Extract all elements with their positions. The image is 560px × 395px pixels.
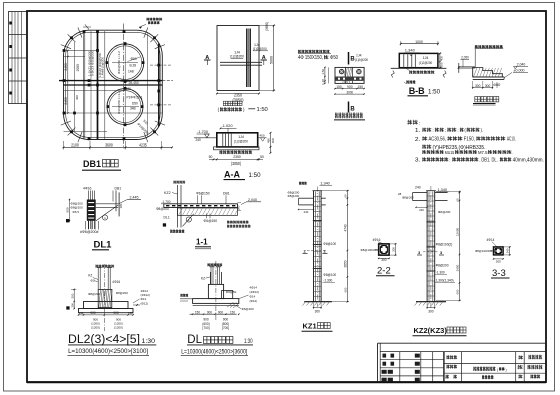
DL dowel bars	[210, 267, 212, 285]
svg-text:450: 450	[260, 134, 265, 138]
svg-text:DL1: DL1	[164, 216, 170, 220]
B-B right dimension	[439, 53, 441, 67]
DB1 corner fan hatch bottom-left	[61, 121, 82, 142]
svg-text:100: 100	[237, 205, 241, 210]
svg-text::: :	[419, 121, 420, 127]
svg-text:240: 240	[419, 208, 424, 212]
svg-text:DB1: DB1	[83, 159, 101, 169]
svg-text:-1.700: -1.700	[162, 200, 171, 204]
svg-text:400: 400	[439, 56, 443, 61]
svg-text:(600): (600)	[222, 322, 229, 326]
svg-text:2-2: 2-2	[377, 266, 391, 277]
B-B beam body	[399, 53, 438, 67]
svg-text:MU15: MU15	[445, 150, 455, 155]
svg-text:900: 900	[347, 85, 353, 89]
svg-text:1.: 1.	[415, 128, 421, 134]
DL2 footing step	[84, 302, 129, 309]
svg-text:F150,: F150,	[464, 137, 475, 143]
svg-text:50: 50	[260, 155, 264, 159]
svg-text:1,340: 1,340	[438, 188, 448, 192]
svg-text:4Φ16: 4Φ16	[112, 280, 120, 284]
tie beam dark band	[335, 77, 363, 81]
3-3 section square	[494, 247, 504, 255]
svg-text:M7.5: M7.5	[478, 150, 488, 155]
KZ2 stirrup ticks	[427, 196, 435, 296]
svg-text:2B.450: 2B.450	[129, 81, 139, 85]
B-B backfill note blob	[409, 70, 434, 74]
B-B ground line	[391, 67, 447, 69]
svg-text:3.: 3.	[415, 158, 421, 164]
DL2 left dimension	[73, 289, 75, 308]
DB1 top-left extension ticks	[85, 25, 89, 30]
1-1 dampproof square and blob	[163, 223, 166, 226]
slab plan bottom dimension	[217, 93, 259, 95]
svg-text:(1)2@200: (1)2@200	[234, 139, 248, 143]
svg-text:180: 180	[119, 203, 123, 208]
A-A inner rebar verticals	[222, 134, 224, 147]
svg-text:2,040: 2,040	[248, 198, 257, 202]
DL top rebar text	[208, 263, 223, 266]
section marker B bottom	[348, 102, 350, 113]
slab plan vertical beam	[246, 29, 248, 88]
svg-text:(3050): (3050)	[231, 161, 241, 166]
3-3 bottom dimension	[494, 258, 504, 260]
svg-text:KZ: KZ	[88, 273, 92, 277]
svg-text:(1)2@200: (1)2@200	[230, 55, 244, 59]
svg-text:34B: 34B	[130, 106, 136, 110]
1-1 diagonal brace	[183, 214, 194, 227]
svg-text:1,300(1,340): 1,300(1,340)	[436, 279, 454, 283]
2-2 section square	[379, 244, 389, 255]
svg-text:3000: 3000	[347, 91, 354, 95]
KZ1 column centerline	[316, 187, 318, 308]
svg-text:50: 50	[209, 155, 213, 159]
DB1 left dimension chain	[67, 50, 69, 114]
DL footing pedestal	[208, 284, 223, 298]
tie beam plan rectangle	[335, 67, 364, 83]
DL1 vertical rebars	[87, 191, 89, 230]
DL right step	[222, 291, 233, 299]
DB1 center axis line	[123, 24, 125, 149]
svg-text:Φ8@200: Φ8@200	[402, 195, 414, 199]
svg-text:300: 300	[485, 84, 491, 88]
svg-text:240: 240	[415, 186, 421, 190]
svg-text:300: 300	[70, 303, 74, 308]
tie beam bottom dimension	[335, 88, 364, 90]
tie beam plan center column hatch	[343, 67, 352, 83]
svg-text:300: 300	[496, 259, 501, 263]
svg-text:DL2(3)<4>[5]: DL2(3)<4>[5]	[68, 334, 140, 346]
notes heading	[408, 120, 418, 125]
svg-text:AC30,56,: AC30,56,	[429, 137, 447, 143]
svg-text:(Φ12): (Φ12)	[250, 299, 258, 303]
svg-text:240: 240	[304, 210, 309, 214]
svg-text:5000: 5000	[270, 56, 274, 64]
svg-text:500: 500	[70, 293, 74, 298]
svg-text:KZ1: KZ1	[303, 322, 317, 331]
svg-text:2,445: 2,445	[130, 195, 139, 199]
svg-text:2450: 2450	[64, 97, 68, 105]
svg-text:2350: 2350	[234, 92, 243, 97]
DB1 intersection node dots	[63, 30, 161, 140]
steps profile with hatch	[473, 68, 503, 77]
DL1 slab lines to wall	[96, 203, 119, 205]
DL1 column dark section	[87, 200, 96, 221]
svg-text:Φ8@200: Φ8@200	[156, 207, 169, 211]
DL1 base black square	[66, 219, 69, 222]
svg-text:600: 600	[271, 138, 275, 143]
svg-text:2.: 2.	[415, 137, 421, 143]
svg-text:KZ2(KZ3): KZ2(KZ3)	[414, 326, 448, 335]
note item 2 line 3	[422, 150, 443, 154]
svg-text:1.50: 1.50	[321, 69, 325, 75]
svg-text:(3850): (3850)	[265, 22, 269, 31]
svg-text:(600): (600)	[202, 322, 209, 326]
svg-text:500: 500	[66, 207, 70, 212]
svg-text:DB1: DB1	[223, 192, 230, 196]
KZ2 base dimension	[427, 307, 435, 309]
svg-text:4Φ14: 4Φ14	[250, 286, 258, 290]
svg-text:600: 600	[439, 62, 443, 67]
1-1 top leader blob	[174, 181, 186, 184]
DL2 footing slab	[79, 309, 134, 313]
KZ1 left flange dim	[299, 209, 314, 211]
A-A section slab body	[217, 133, 258, 147]
svg-text:600: 600	[343, 287, 347, 292]
svg-text:Φ6@150: Φ6@150	[196, 192, 210, 196]
svg-text:-1.700: -1.700	[197, 130, 208, 134]
svg-text:1:30: 1:30	[142, 339, 156, 345]
DL2 column with hatch	[98, 289, 112, 307]
svg-text:2650: 2650	[343, 260, 347, 267]
3-3 right dimension	[509, 247, 511, 255]
KZ1 top texts	[299, 182, 307, 185]
svg-text:150: 150	[195, 310, 200, 314]
svg-text:Φ8@100: Φ8@100	[323, 242, 336, 246]
svg-text:300: 300	[428, 310, 434, 314]
DB1 bottom dimension line	[63, 141, 173, 150]
DL1 right wall line	[115, 190, 117, 211]
tie beam plan title	[335, 113, 363, 119]
A-A bottom bedding slab	[214, 147, 260, 150]
svg-text:Φ8@200: Φ8@200	[288, 194, 300, 198]
title block right section rows	[444, 363, 546, 365]
section marker B top	[348, 52, 350, 65]
svg-text:(1)2@200: (1)2@200	[419, 61, 433, 65]
svg-text:150: 150	[358, 85, 364, 89]
inner frame bottom emphasis	[27, 381, 546, 383]
A-A bottom dimension	[209, 158, 263, 160]
steps bottom slab	[473, 76, 504, 78]
KZ1 base line	[304, 301, 332, 303]
svg-text:1J4: 1J4	[356, 54, 362, 58]
svg-text:3600: 3600	[105, 142, 113, 147]
svg-text:4740: 4740	[343, 224, 347, 231]
signature strip table	[9, 12, 28, 104]
svg-text:Φ8@100: Φ8@100	[323, 273, 336, 277]
svg-text:4Φ16: 4Φ16	[83, 186, 91, 190]
svg-text:(1)2@200: (1)2@200	[253, 47, 267, 51]
svg-text:Φ8@200: Φ8@200	[436, 264, 449, 268]
svg-text:.: .	[479, 158, 480, 163]
DL center axis	[215, 261, 217, 320]
A-A bedding text blob (C15)	[220, 150, 253, 154]
svg-text:Φ10@200 L=1.2: Φ10@200 L=1.2	[117, 91, 121, 114]
svg-text:12600: 12600	[456, 227, 460, 236]
svg-text:2050: 2050	[76, 64, 80, 72]
KZ1 top beam flange	[299, 197, 314, 199]
DL1 bottom hatch rebars	[85, 221, 87, 230]
svg-text:L=10300(4600)<2500>[3100]: L=10300(4600)<2500>[3100]	[68, 349, 148, 355]
2-2 bottom dimension	[379, 257, 389, 259]
svg-text:240: 240	[506, 248, 510, 253]
DB1 vertical grid lines	[75, 31, 159, 139]
svg-text::: :	[457, 128, 458, 133]
KZ2 column centerline	[430, 186, 432, 309]
svg-text:5-5KZ3 Φ10@200: 5-5KZ3 Φ10@200	[91, 51, 95, 76]
svg-text:1,340: 1,340	[320, 182, 330, 186]
tie beam left dimension	[324, 67, 326, 83]
svg-text:Φ6.5: Φ6.5	[73, 210, 80, 214]
steps top note text	[475, 45, 503, 48]
title block left table columns	[399, 352, 401, 382]
KZ1 base dimension	[314, 307, 322, 309]
svg-text:1:50: 1:50	[428, 89, 441, 96]
steps upper floor line	[458, 66, 475, 68]
svg-text:450: 450	[267, 138, 271, 143]
DL1 diagonal tie	[96, 205, 118, 221]
svg-text:900: 900	[223, 317, 229, 321]
svg-text:[1200]: [1200]	[91, 326, 100, 330]
KZ1 right dimension line	[346, 191, 348, 302]
DB1 lower tank circle (double)	[107, 89, 143, 125]
svg-text:±0.000: ±0.000	[514, 69, 525, 73]
svg-text:1,340: 1,340	[405, 48, 416, 53]
svg-text:[700]: [700]	[222, 326, 229, 330]
svg-text:2650: 2650	[456, 264, 460, 271]
tie beam note text line 1	[298, 50, 330, 53]
svg-text:DB1: DB1	[115, 186, 122, 190]
1-1 slab band	[164, 204, 238, 208]
svg-text:Φ8@100(2): Φ8@100(2)	[436, 243, 453, 247]
svg-text:4Φ14: 4Φ14	[487, 238, 495, 242]
svg-text:#Φ6@200#: #Φ6@200#	[80, 230, 99, 234]
svg-text:1.10: 1.10	[321, 79, 325, 85]
KZ1 column verticals	[313, 191, 315, 302]
A-A right dimension	[270, 133, 272, 153]
svg-text:B: B	[350, 106, 355, 112]
svg-text:150: 150	[79, 311, 84, 315]
svg-text:-1.300: -1.300	[323, 278, 332, 282]
DL2 slab right level flag	[133, 304, 140, 306]
svg-text:-1.020: -1.020	[222, 124, 233, 128]
svg-text::: :	[432, 128, 433, 133]
KZ2 right dimension line	[459, 192, 461, 301]
svg-text:60: 60	[456, 198, 460, 202]
svg-text:): )	[506, 368, 507, 372]
DB1 corner fan hatch top-left	[61, 28, 82, 49]
svg-text:300: 300	[391, 247, 395, 252]
svg-text:900: 900	[113, 311, 119, 315]
steps note leader line	[474, 49, 476, 68]
svg-text:P1ΦΦ.50 1: P1ΦΦ.50 1	[127, 95, 143, 99]
svg-text:Φ8@200: Φ8@200	[71, 206, 83, 210]
svg-text:3-3: 3-3	[492, 268, 506, 279]
steps bottom dimension	[473, 87, 493, 89]
title block right cell blobs row3	[446, 375, 450, 379]
svg-text:Φ6@200: Φ6@200	[242, 307, 254, 311]
svg-text:AC10,: AC10,	[507, 137, 516, 143]
svg-text:300: 300	[75, 95, 79, 100]
2-2 right dimension	[394, 244, 396, 255]
svg-text:-1.300: -1.300	[436, 271, 445, 275]
DB1 upper tank circle (double)	[106, 44, 144, 82]
svg-text:KZ: KZ	[201, 277, 205, 281]
svg-text:2,050: 2,050	[461, 55, 469, 59]
DL slab hatch wedge	[227, 302, 240, 308]
svg-text:4235: 4235	[139, 142, 147, 147]
DL column outline	[209, 272, 211, 284]
slab plan rectangle	[217, 26, 259, 91]
DB1 corner fan hatch bottom-right	[144, 121, 165, 142]
DL bottom dimension	[190, 313, 237, 315]
note item 2 line 2	[422, 145, 431, 149]
1-1 bedding note blobs	[227, 221, 249, 224]
steps right leader	[504, 73, 512, 78]
title block left cell marks	[382, 354, 420, 382]
svg-text:2350: 2350	[233, 155, 241, 159]
svg-text:900: 900	[203, 317, 209, 321]
svg-text:1J4: 1J4	[423, 56, 429, 60]
svg-text:[700]: [700]	[202, 326, 209, 330]
svg-text:1:50: 1:50	[249, 172, 262, 179]
svg-text:;: ;	[445, 128, 446, 133]
svg-text:Φ50: Φ50	[330, 55, 338, 61]
svg-text:1000: 1000	[415, 39, 423, 44]
B-B inner verticals	[403, 54, 405, 67]
KZ2 left flange dim	[416, 206, 427, 208]
DB1 top note text	[147, 18, 163, 21]
DL2 center axis	[103, 264, 105, 331]
svg-text:Φ8@200: Φ8@200	[116, 291, 128, 295]
svg-text:KZ2: KZ2	[164, 191, 171, 195]
B-B lower note blob	[406, 80, 415, 84]
svg-text:2450: 2450	[64, 63, 68, 71]
svg-text:150: 150	[128, 311, 133, 315]
signature strip row marks	[9, 22, 12, 95]
steps title	[475, 97, 480, 102]
DL2 dowel bars	[97, 267, 99, 289]
tie beam pile circles	[339, 69, 344, 74]
svg-text:(3050): (3050)	[233, 98, 245, 103]
svg-text:600: 600	[456, 289, 460, 294]
svg-text:L=10300(4600)<2500>[3600]: L=10300(4600)<2500>[3600]	[181, 349, 247, 355]
slab plan title	[223, 101, 227, 105]
svg-text:300: 300	[381, 258, 387, 262]
svg-text:DB1. DL.: DB1. DL.	[481, 158, 497, 164]
svg-text:DL1: DL1	[94, 240, 113, 251]
svg-text:B.28: B.28	[130, 63, 137, 67]
svg-text:40mm,430mm.: 40mm,430mm.	[513, 158, 544, 164]
B-B break marks	[391, 71, 394, 78]
svg-text:.: .	[512, 150, 513, 155]
svg-text:240: 240	[196, 138, 202, 142]
A-A right level flag	[258, 137, 267, 139]
DL left level mark	[180, 298, 193, 300]
svg-text:60: 60	[343, 194, 347, 198]
svg-text:150: 150	[230, 310, 235, 314]
svg-text:Φ8@200: Φ8@200	[88, 292, 100, 296]
svg-text:4Φ16: 4Φ16	[373, 238, 381, 242]
svg-text:Φ6@150: Φ6@150	[204, 219, 218, 223]
svg-text:(4Φ12): (4Φ12)	[250, 290, 259, 294]
slab plan horizontal beam	[220, 61, 262, 63]
svg-text:2,040: 2,040	[517, 62, 526, 66]
slab plan right dimension	[273, 26, 275, 91]
DB1 foundation plan outline (stadium shape, double line)	[64, 30, 163, 139]
DL1 left dimension	[69, 200, 71, 222]
svg-text:1.4MΦ10@200: 1.4MΦ10@200	[101, 57, 105, 78]
KZ2 top beam flange	[413, 192, 428, 194]
svg-text:300: 300	[475, 84, 481, 88]
DB1 corner fan hatch top-right	[144, 28, 165, 49]
svg-text:A-A: A-A	[224, 169, 240, 179]
KZ2 column verticals	[426, 191, 428, 302]
svg-text:D50: D50	[132, 101, 138, 105]
KZ1 stirrup ticks	[313, 197, 321, 297]
B-B top dimension 1000	[401, 43, 438, 45]
svg-text:Φ14: Φ14	[250, 295, 256, 299]
svg-text:4Φ 150X150,: 4Φ 150X150,	[298, 55, 323, 61]
title block right cell blobs row2	[447, 365, 458, 369]
title block right cell blobs row1	[447, 355, 458, 359]
svg-text:1-1: 1-1	[196, 238, 208, 247]
svg-text::: :	[449, 158, 450, 163]
svg-text:M6: M6	[127, 87, 132, 91]
svg-text:900: 900	[90, 311, 96, 315]
svg-text:1:30: 1:30	[244, 339, 253, 345]
title block outline	[378, 342, 547, 344]
svg-text:B-B: B-B	[409, 86, 425, 96]
DL2 bottom dimension	[79, 314, 134, 316]
svg-text:1A8: 1A8	[128, 69, 134, 73]
title block left table rows	[380, 359, 444, 361]
svg-text:900: 900	[218, 310, 223, 314]
svg-text:).: ).	[481, 128, 484, 133]
DB1 horizontal grid lines	[59, 51, 173, 132]
KZ2 base line	[416, 301, 446, 303]
svg-text:900: 900	[207, 310, 212, 314]
svg-text:(1)2@200: (1)2@200	[355, 58, 368, 62]
title block right section columns	[461, 352, 463, 382]
svg-text:Φ8@200: Φ8@200	[438, 210, 451, 214]
DL1 detail bubble	[102, 215, 107, 220]
DL footing slab	[193, 299, 239, 304]
svg-text:(Φ12): (Φ12)	[141, 301, 149, 305]
svg-text:2100: 2100	[71, 142, 79, 147]
DL2 top rebar text	[96, 265, 115, 268]
svg-text:[1200]: [1200]	[114, 326, 123, 330]
svg-text:300: 300	[315, 310, 321, 314]
1-1 wall band with hatch	[178, 208, 238, 215]
svg-text:DL: DL	[187, 334, 202, 346]
svg-text:Φ8@50: Φ8@50	[226, 290, 237, 294]
svg-text:1:50: 1:50	[257, 107, 268, 113]
svg-text:150: 150	[336, 85, 342, 89]
